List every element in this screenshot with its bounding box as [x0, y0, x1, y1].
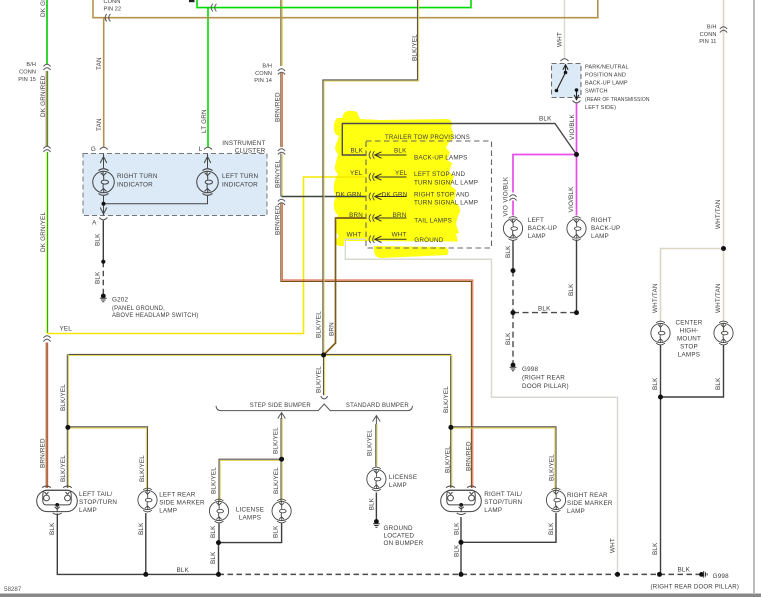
svg-text:G202: G202 [112, 297, 129, 304]
svg-text:INSTRUMENT: INSTRUMENT [222, 140, 265, 147]
svg-text:HIGH-: HIGH- [680, 327, 699, 334]
lamp right rear side marker [546, 488, 565, 512]
wire WHT into park/neutral switch [564, 0, 566, 60]
svg-text:LAMP: LAMP [79, 507, 97, 514]
svg-text:BLK/YEL: BLK/YEL [445, 446, 452, 473]
connector arc switch top [561, 59, 569, 61]
ground G202 [100, 294, 107, 302]
trailer row 4 connector and arrow [369, 214, 374, 222]
wire BLK/YEL from bumper split down middle [324, 355, 325, 395]
svg-text:BLK: BLK [505, 245, 512, 258]
svg-text:BLK: BLK [369, 497, 376, 510]
svg-text:PIN 14: PIN 14 [254, 78, 272, 84]
svg-text:DK GRN/YEL: DK GRN/YEL [40, 212, 47, 252]
wire BLK below right back-up lamp [576, 240, 578, 313]
svg-text:BRN/RED: BRN/RED [40, 438, 47, 468]
svg-text:YEL: YEL [395, 170, 408, 177]
connector left column mid [43, 146, 50, 152]
connector B/H CONN PIN 14 [278, 69, 285, 75]
svg-text:GROUND: GROUND [384, 525, 413, 532]
svg-text:BLK: BLK [539, 116, 552, 123]
svg-text:BLK: BLK [652, 377, 659, 390]
svg-text:LAMP: LAMP [389, 482, 407, 489]
wire BLK/YEL main feed from top [323, 0, 419, 355]
junction dot right back-up at dashed cross [574, 310, 579, 315]
svg-text:ABOVE HEADLAMP SWITCH): ABOVE HEADLAMP SWITCH) [112, 312, 199, 319]
wire BLK cluster pin A to splice [102, 221, 104, 262]
svg-text:SIDE MARKER: SIDE MARKER [159, 499, 205, 506]
wire BLK below right license lamp [219, 523, 282, 543]
wire BLK right tail splice to bus [460, 542, 462, 574]
svg-text:WHT/TAN: WHT/TAN [652, 283, 659, 313]
lamp left rear side marker [138, 488, 157, 512]
svg-text:RIGHT REAR: RIGHT REAR [567, 492, 608, 499]
connector arc cluster pin A [99, 218, 107, 220]
svg-text:BRN: BRN [393, 212, 407, 219]
lamp license right [272, 499, 291, 523]
svg-text:B/H: B/H [26, 62, 36, 68]
junction dot left back-up splice [511, 268, 516, 273]
wire BLK/YEL branch to right rear side marker [451, 427, 556, 490]
connector column B at DK GRN branch [278, 199, 285, 205]
svg-text:TURN SIGNAL LAMP: TURN SIGNAL LAMP [414, 180, 478, 187]
svg-text:(REAR OF TRANSMISSION: (REAR OF TRANSMISSION [585, 97, 650, 103]
connector column B mid [278, 149, 285, 155]
wire VIO/BLK to left back-up lamp [513, 155, 577, 193]
svg-text:PARK/NEUTRAL: PARK/NEUTRAL [585, 65, 629, 71]
svg-text:LAMPS: LAMPS [678, 351, 700, 358]
svg-text:B/H: B/H [262, 64, 272, 70]
lamp right back-up [567, 217, 586, 241]
svg-text:BACK-UP LAMPS: BACK-UP LAMPS [414, 155, 468, 162]
junction dot BLK/YEL main node [321, 353, 326, 358]
lamp license left [209, 499, 228, 523]
svg-text:DK GRN: DK GRN [382, 191, 408, 198]
svg-text:LAMP: LAMP [591, 233, 609, 240]
svg-text:BLK: BLK [568, 283, 575, 296]
junction dot bus stop lamps [657, 572, 662, 577]
svg-text:BRN: BRN [349, 212, 363, 219]
svg-text:BLK: BLK [210, 525, 217, 538]
svg-text:BLK: BLK [177, 567, 190, 574]
svg-text:WHT: WHT [392, 232, 407, 239]
svg-text:BLK/YEL: BLK/YEL [412, 34, 419, 61]
trailer tow provisions dashed box [366, 141, 492, 248]
svg-text:L: L [199, 146, 203, 153]
wire BLK below right tail lamp [460, 517, 462, 542]
svg-text:STANDARD BUMPER: STANDARD BUMPER [346, 402, 409, 409]
svg-text:YEL: YEL [350, 170, 363, 177]
lamp right turn indicator [93, 169, 115, 196]
svg-text:BLK/YEL: BLK/YEL [273, 467, 280, 494]
svg-text:BRN/RED: BRN/RED [466, 441, 473, 471]
svg-text:TURN SIGNAL LAMP: TURN SIGNAL LAMP [414, 199, 478, 206]
right page border [753, 0, 755, 593]
svg-text:BLK/YEL: BLK/YEL [60, 384, 67, 411]
svg-text:BRN/RED: BRN/RED [275, 92, 282, 122]
instrument cluster box [83, 154, 267, 216]
svg-text:(RIGHT REAR DOOR PILLAR): (RIGHT REAR DOOR PILLAR) [651, 584, 740, 591]
svg-text:BLK: BLK [715, 377, 722, 390]
svg-text:VIO/BLK: VIO/BLK [569, 114, 576, 140]
junction dot VIO/BLK node [574, 152, 579, 157]
svg-text:LT GRN: LT GRN [201, 109, 208, 133]
svg-text:BLK: BLK [548, 522, 555, 535]
wire LT GRN branch down to cluster pin L [207, 8, 209, 148]
svg-text:(RIGHT REAR: (RIGHT REAR [522, 374, 565, 381]
wire BLK below standard license lamp to bumper ground [375, 493, 377, 520]
wire BRN trailer row 4 [324, 218, 366, 355]
wire DK GRN at far left top [46, 0, 48, 64]
svg-text:WHT: WHT [347, 232, 362, 239]
wire BLK/YEL horizontal bus y355 to left [68, 354, 324, 355]
wire green top horizontal [197, 0, 471, 8]
wire TAN top horizontal [93, 0, 598, 18]
arrow step side bumper drop [278, 413, 286, 420]
svg-text:BRN/YEL: BRN/YEL [275, 159, 282, 188]
wire BRN/YEL column B mid [281, 154, 282, 197]
wire BLK dashed down to ground G998 upper [512, 313, 514, 363]
wire VIO/BLK to right back-up lamp [576, 155, 578, 216]
svg-text:BRN/RED: BRN/RED [275, 205, 282, 235]
svg-text:BLK: BLK [454, 544, 461, 557]
wire BLK/YEL branch to left rear side marker [68, 427, 148, 490]
connector arc cluster pin L [204, 147, 212, 149]
svg-text:LAMP: LAMP [528, 233, 546, 240]
junction dot right tail feed [448, 425, 453, 430]
wire BLK/YEL left drop to left tail lamp [67, 354, 68, 488]
junction dot bus right tail [459, 572, 464, 577]
svg-text:INDICATOR: INDICATOR [222, 182, 258, 189]
svg-text:WHT/TAN: WHT/TAN [715, 283, 722, 313]
svg-text:STOP: STOP [680, 343, 698, 350]
wire YEL from left column to trailer row 2 [47, 177, 366, 334]
svg-text:CLUSTER: CLUSTER [235, 147, 266, 154]
wire BLK below right side marker [461, 513, 556, 542]
wire VIO to left back-up lamp below connector [512, 201, 514, 216]
svg-text:BLK: BLK [210, 551, 217, 564]
wire BLK/YEL standard bumper drop to license lamp [376, 424, 377, 467]
svg-text:RIGHT STOP AND: RIGHT STOP AND [414, 191, 470, 198]
lamp center stop left [651, 321, 670, 345]
svg-text:CONN: CONN [104, 0, 121, 5]
lamp right tail/stop/turn dual filament [441, 486, 482, 515]
wire BLK/YEL bus y355 to right and down to right tail [324, 354, 452, 488]
svg-text:LICENSE: LICENSE [236, 507, 264, 514]
svg-text:BLK/YEL: BLK/YEL [316, 366, 323, 393]
connector arc cluster pin G [100, 147, 108, 149]
cluster internal wiring [104, 154, 208, 216]
ground G998 lower right [699, 571, 707, 578]
svg-text:WHT: WHT [610, 538, 617, 553]
park/neutral switch box [552, 64, 582, 98]
svg-text:BACK-UP: BACK-UP [528, 225, 557, 232]
svg-text:58287: 58287 [4, 586, 22, 593]
svg-text:CONN: CONN [19, 69, 36, 75]
svg-text:WHT/TAN: WHT/TAN [715, 199, 722, 229]
connector on VIO branch [509, 195, 516, 201]
svg-text:BLK/YEL: BLK/YEL [139, 455, 146, 482]
wire BLK below left license lamp [218, 523, 220, 543]
svg-text:ON BUMPER: ON BUMPER [384, 540, 424, 547]
wire BLK below right stop lamp [661, 345, 724, 398]
wire BLK dashed main ground bus [219, 573, 702, 575]
svg-text:DK GRN: DK GRN [336, 191, 362, 198]
svg-text:MOUNT: MOUNT [677, 335, 701, 342]
svg-text:VIO/BLK: VIO/BLK [503, 176, 510, 202]
svg-text:G998: G998 [713, 573, 730, 580]
wire BLK below left stop lamp [660, 345, 662, 575]
junction dot WHT/TAN split [721, 246, 726, 251]
wire WHT/TAN branch to left stop lamp [661, 249, 724, 323]
svg-text:BLK/YEL: BLK/YEL [316, 311, 323, 338]
junction dot bus left marker [143, 572, 148, 577]
svg-text:BLK: BLK [95, 271, 102, 284]
wire BLK below left back-up lamp [512, 241, 514, 271]
wire BLK dashed left back-up to splice [512, 271, 514, 313]
lamp left tail/stop/turn dual filament [37, 486, 78, 515]
yellow highlighter blob over trailer tow provisions [334, 111, 460, 258]
svg-text:LEFT REAR: LEFT REAR [159, 491, 196, 498]
svg-text:BLK/YEL: BLK/YEL [273, 427, 280, 454]
junction dot left tail feed [65, 425, 70, 430]
svg-text:(PANEL GROUND,: (PANEL GROUND, [112, 305, 165, 312]
svg-text:RIGHT: RIGHT [591, 217, 612, 224]
svg-text:LAMP: LAMP [484, 507, 502, 514]
svg-text:LEFT TURN: LEFT TURN [222, 173, 258, 180]
svg-text:BRN: BRN [329, 322, 336, 336]
svg-text:B/H: B/H [707, 25, 717, 31]
wire BLK below left tail lamp to bus [57, 514, 146, 575]
svg-text:TAN: TAN [96, 118, 103, 131]
svg-text:BLK: BLK [394, 148, 407, 155]
connector on green horizontal [211, 4, 216, 12]
wire VIO/BLK from switch to junction [576, 103, 578, 155]
wire BLK dashed across to right back-up drop [513, 312, 577, 314]
svg-text:DOOR PILLAR): DOOR PILLAR) [522, 383, 569, 390]
wire BLK below left side marker [145, 513, 147, 574]
connector B/H CONN PIN 22 on tan wire [105, 14, 110, 22]
svg-text:PIN 11: PIN 11 [699, 39, 716, 45]
svg-text:BLK: BLK [49, 522, 56, 535]
lamp left back-up [503, 217, 522, 241]
wire DK GRN trailer row 3 [282, 196, 367, 198]
wire DK GRN/RED left column [46, 71, 47, 146]
wire BLK bus solid segment [146, 573, 219, 575]
svg-text:VIO: VIO [503, 205, 510, 216]
svg-text:BLK: BLK [678, 567, 691, 574]
connector arc switch bottom [573, 101, 581, 103]
junction dot right tail ground [459, 540, 464, 545]
svg-text:PIN 15: PIN 15 [18, 77, 36, 83]
junction dot bus WHT [615, 572, 620, 577]
wire BLK license splice to bus [218, 543, 220, 575]
svg-text:SWITCH: SWITCH [585, 89, 608, 95]
svg-text:CONN: CONN [255, 71, 272, 77]
switch internals [555, 65, 579, 100]
junction dot bus license [216, 572, 221, 577]
svg-text:LAMP: LAMP [567, 508, 585, 515]
junction dot license ground [216, 540, 221, 545]
lamp left turn indicator [197, 169, 219, 196]
svg-text:STOP/TURN: STOP/TURN [79, 499, 117, 506]
wire BLK/YEL to right license lamp [281, 459, 282, 501]
svg-text:LEFT STOP AND: LEFT STOP AND [414, 171, 465, 178]
svg-text:BLK/YEL: BLK/YEL [367, 429, 374, 456]
svg-text:WHT: WHT [557, 32, 564, 47]
svg-text:TRAILER TOW PROVISIONS: TRAILER TOW PROVISIONS [385, 134, 470, 141]
svg-text:BLK: BLK [273, 525, 280, 538]
arrow standard bumper drop [373, 416, 381, 425]
svg-text:BLK: BLK [505, 332, 512, 345]
svg-text:RIGHT TURN: RIGHT TURN [117, 173, 158, 180]
wire DK GRN/YEL left column [46, 152, 47, 334]
junction dot cluster ground splice [101, 260, 105, 264]
svg-text:LOCATED: LOCATED [384, 533, 415, 540]
ground on bumper [373, 519, 380, 527]
connector B/H CONN PIN 15 [43, 64, 50, 70]
svg-text:BLK: BLK [95, 233, 102, 246]
bottom gray band [0, 594, 761, 597]
svg-text:DK GRN: DK GRN [40, 0, 47, 17]
svg-text:LEFT SIDE): LEFT SIDE) [585, 105, 616, 111]
junction dot license feed [279, 457, 284, 462]
junction dot left back-up at dashed cross [511, 310, 516, 315]
svg-text:A: A [92, 219, 97, 226]
wire BLK/YEL step side bumper drop to license lamps [281, 418, 282, 459]
svg-text:BLK/YEL: BLK/YEL [549, 454, 556, 481]
svg-text:GROUND: GROUND [414, 237, 443, 244]
svg-text:BLK/YEL: BLK/YEL [211, 467, 218, 494]
svg-text:VIO/BLK: VIO/BLK [568, 186, 575, 212]
svg-text:LAMP: LAMP [159, 507, 177, 514]
svg-text:BLK: BLK [652, 542, 659, 555]
svg-text:BACK-UP: BACK-UP [591, 225, 620, 232]
svg-text:G998: G998 [522, 366, 539, 373]
ground G998 upper [510, 363, 517, 371]
trailer row 3 connector and arrow [369, 193, 374, 201]
svg-text:CONN: CONN [700, 32, 717, 38]
svg-text:CENTER: CENTER [675, 319, 702, 326]
trailer row 1 connector and arrow [369, 151, 374, 159]
svg-text:LEFT TAIL/: LEFT TAIL/ [79, 491, 113, 498]
svg-text:BLK: BLK [538, 306, 551, 313]
wire BLK/YEL to left license lamp [219, 459, 282, 501]
svg-text:BLK: BLK [350, 148, 363, 155]
lamp center stop right [714, 321, 733, 345]
svg-text:BLK/YEL: BLK/YEL [60, 455, 67, 482]
svg-text:BACK-UP LAMP: BACK-UP LAMP [585, 81, 628, 87]
svg-text:RIGHT TAIL/: RIGHT TAIL/ [484, 491, 522, 498]
wire BRN/YEL top of column B [281, 0, 282, 66]
wire BLK trailer row 1 loop over box [342, 124, 576, 156]
horizontal labels [60, 65, 740, 591]
svg-text:G: G [91, 146, 96, 153]
svg-text:LICENSE: LICENSE [389, 474, 417, 481]
svg-text:LAMPS: LAMPS [239, 515, 261, 522]
wire BLK dashed to ground G202 [102, 262, 104, 294]
svg-text:TAIL LAMPS: TAIL LAMPS [414, 217, 452, 224]
trailer row 5 connector and arrow [369, 236, 374, 244]
svg-text:LEFT: LEFT [528, 217, 544, 224]
junction dot stop lamps ground [658, 395, 663, 400]
wire BRN/RED column B lower, to right tail lamp [281, 204, 473, 489]
wire BRN/RED left column down to left tail lamp [46, 343, 47, 489]
wire TAN branch down to cluster pin G [103, 18, 105, 148]
svg-text:TAN: TAN [96, 57, 103, 70]
wire WHT/TAN from B/H CONN PIN 11 [723, 0, 725, 333]
svg-text:BLK/YEL: BLK/YEL [443, 386, 450, 413]
lamp license standard [367, 467, 386, 491]
connector B/H CONN PIN 11 [720, 27, 727, 33]
top edge black mark [189, 0, 195, 2]
svg-text:INDICATOR: INDICATOR [117, 182, 153, 189]
trailer row 2 connector and arrow [369, 173, 374, 181]
bumper option bracket [216, 404, 413, 411]
svg-text:BLK: BLK [454, 522, 461, 535]
svg-text:SIDE MARKER: SIDE MARKER [567, 500, 613, 507]
wire BRN/RED column B upper [281, 73, 282, 147]
svg-text:DK GRN/RED: DK GRN/RED [40, 75, 47, 117]
svg-text:PIN 22: PIN 22 [104, 7, 122, 13]
connector left column at yellow branch [43, 336, 50, 342]
svg-text:POSITION AND: POSITION AND [585, 73, 626, 79]
svg-text:STEP SIDE BUMPER: STEP SIDE BUMPER [250, 402, 311, 409]
svg-text:YEL: YEL [60, 325, 73, 332]
svg-text:STOP/TURN: STOP/TURN [484, 499, 522, 506]
wire WHT ground run from trailer row 5 to rear pillar [345, 239, 617, 574]
svg-text:BLK: BLK [138, 522, 145, 535]
